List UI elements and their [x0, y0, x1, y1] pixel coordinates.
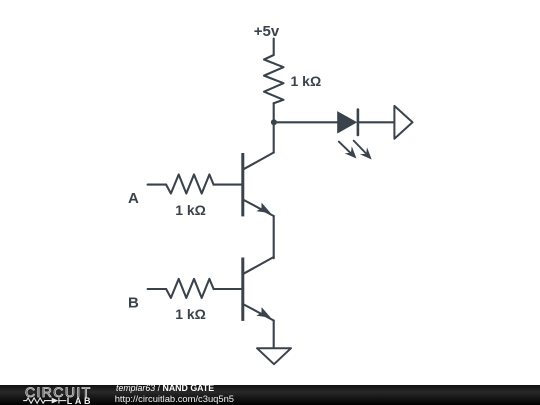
- wire Q1 emitter to Q2 collector: [273, 216, 275, 258]
- wire R2 to Q1 base: [214, 184, 242, 186]
- wire Q2 emitter to ground: [273, 321, 275, 349]
- wire node to LED: [274, 121, 337, 123]
- ground: [257, 348, 291, 364]
- footer bar: [0, 385, 540, 405]
- resistor R1: [264, 55, 284, 103]
- logo resistor-diode icon: [23, 398, 66, 404]
- wire A lead: [148, 184, 167, 186]
- wire B lead: [148, 288, 167, 290]
- svg-text:templar63 / NAND GATE: templar63 / NAND GATE: [116, 383, 214, 393]
- wire +5v to R1: [273, 39, 275, 56]
- svg-text:B: B: [128, 294, 139, 311]
- svg-text:A: A: [128, 190, 139, 207]
- wire R1 to output node: [273, 103, 275, 122]
- svg-text:1 kΩ: 1 kΩ: [175, 306, 206, 322]
- wire LED to output buffer: [359, 121, 394, 123]
- svg-text:1 kΩ: 1 kΩ: [291, 73, 322, 89]
- svg-text:+5v: +5v: [254, 23, 280, 40]
- resistor R3: [166, 279, 214, 298]
- node output junction: [271, 119, 277, 125]
- svg-text:LAB: LAB: [67, 396, 93, 405]
- wire R3 to Q2 base: [214, 288, 242, 290]
- resistor R2: [166, 175, 214, 194]
- LED D1: [337, 110, 372, 160]
- wire Q1 collector to node: [273, 122, 275, 152]
- svg-text:1 kΩ: 1 kΩ: [175, 202, 206, 218]
- transistor Q1: [243, 153, 274, 217]
- output port buffer: [394, 106, 412, 139]
- transistor Q2: [243, 257, 274, 321]
- svg-text:http://circuitlab.com/c3uq5n5: http://circuitlab.com/c3uq5n5: [115, 393, 234, 404]
